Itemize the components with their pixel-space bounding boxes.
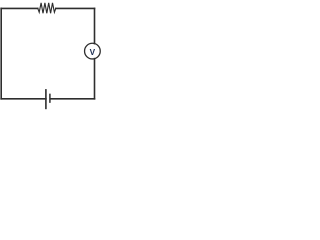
svg-text:V: V	[90, 48, 96, 57]
